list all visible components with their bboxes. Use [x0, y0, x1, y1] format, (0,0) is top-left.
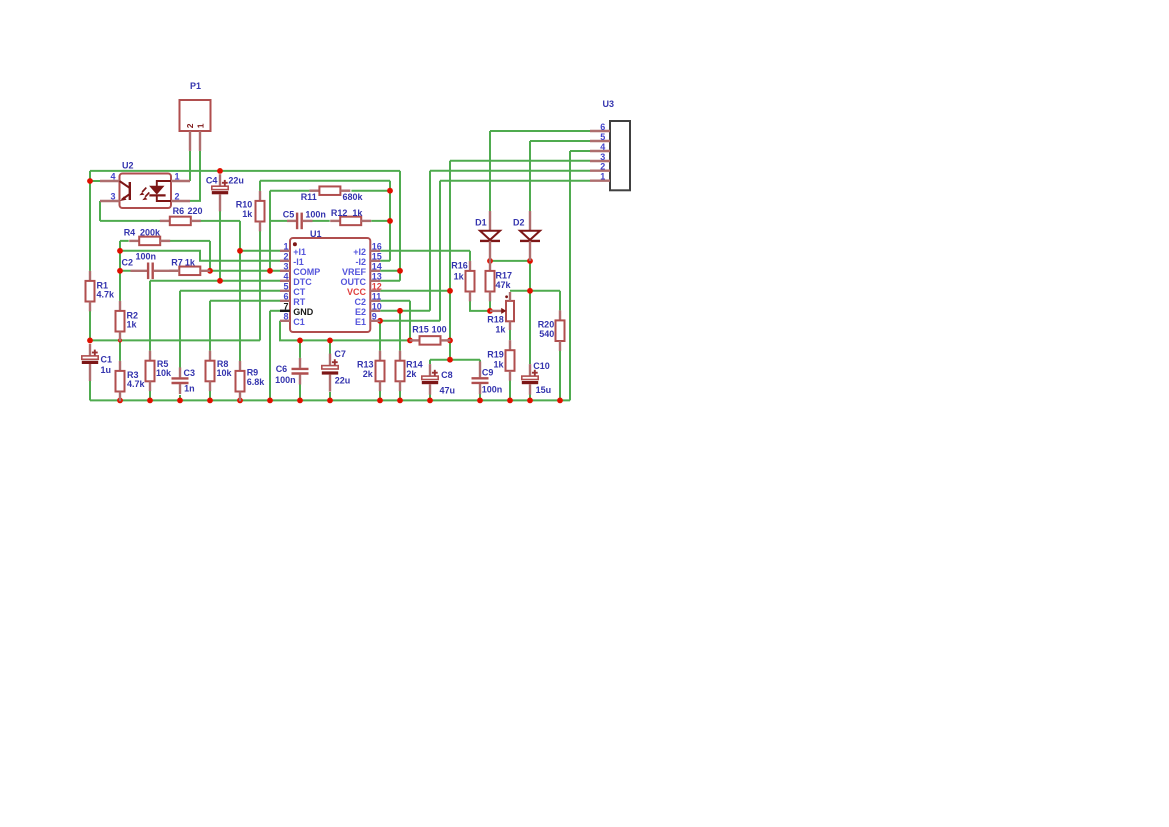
svg-text:1k: 1k: [352, 208, 363, 218]
junction (390,220.9): [387, 218, 393, 224]
resistor R7: [169, 267, 210, 276]
svg-text:1k: 1k: [185, 257, 196, 267]
potentiometer R18: [490, 292, 514, 330]
svg-text:R4: R4: [124, 227, 136, 237]
junction (530,260.9): [527, 258, 533, 264]
wire D2 from U3 pin5: [529, 141, 531, 211]
junction (410,340.4): [407, 338, 413, 344]
svg-text:1u: 1u: [101, 365, 112, 375]
svg-text:D2: D2: [513, 217, 525, 227]
wire R4 right drop: [209, 241, 211, 271]
wire U3 pin6 row: [490, 130, 590, 132]
junction (300,400.4): [297, 398, 303, 404]
wire R8 drop x210: [209, 301, 211, 351]
wire R3 bottom: [119, 391, 121, 401]
resistor R10: [256, 191, 265, 231]
label P1: [190, 81, 201, 91]
wire +I1 to pin1: [240, 250, 280, 252]
label R3 value: [127, 370, 146, 389]
svg-text:4.7k: 4.7k: [127, 379, 146, 389]
wire R19 bottom: [509, 380, 511, 400]
svg-text:R12: R12: [331, 208, 348, 218]
svg-text:4: 4: [283, 272, 288, 282]
junction (530,400.4): [527, 398, 533, 404]
junction (330,340.4): [327, 338, 333, 344]
wire divider rail: [90, 339, 260, 341]
label R19 value: [487, 350, 504, 370]
wire +I1 riser x240: [239, 221, 241, 401]
resistor R20: [556, 310, 565, 350]
svg-text:+I2: +I2: [353, 247, 366, 257]
wire RT row: [210, 300, 280, 302]
svg-text:R7: R7: [171, 257, 183, 267]
junction (220,170.9): [217, 168, 223, 174]
resistor R6: [160, 217, 201, 226]
capacitor C1: [82, 344, 98, 381]
label R7 value: [171, 257, 196, 267]
svg-text:540: 540: [539, 329, 554, 339]
svg-text:15u: 15u: [536, 385, 552, 395]
svg-text:7: 7: [283, 302, 288, 312]
wire VCC row: [380, 290, 450, 292]
wire R10 top: [259, 181, 261, 191]
svg-text:2: 2: [600, 162, 605, 172]
junction (120,250.8): [117, 248, 123, 254]
optocoupler U2: [100, 174, 190, 209]
resistor R8: [206, 351, 215, 391]
svg-text:22u: 22u: [335, 376, 351, 386]
svg-text:C9: C9: [482, 368, 494, 378]
label R18 value: [487, 315, 506, 335]
svg-text:6: 6: [283, 292, 288, 302]
wire C6 bottom: [299, 385, 301, 401]
svg-text:2k: 2k: [406, 369, 417, 379]
junction (300,340.4): [297, 338, 303, 344]
junction (180,400.4): [177, 398, 183, 404]
resistor R15: [410, 336, 451, 345]
svg-text:C2: C2: [122, 257, 134, 267]
svg-text:220: 220: [188, 206, 203, 216]
resistor R5: [146, 351, 155, 391]
resistor R3: [116, 361, 125, 401]
svg-text:12: 12: [372, 282, 382, 292]
svg-text:-I1: -I1: [293, 257, 304, 267]
wire pot top row: [510, 290, 560, 292]
svg-text:C7: C7: [334, 349, 346, 359]
label C10 value: [533, 361, 551, 395]
junction (90,181): [87, 178, 93, 184]
svg-text:10k: 10k: [217, 368, 233, 378]
svg-text:C5: C5: [283, 209, 295, 219]
resistor R9: [236, 361, 245, 401]
resistor R4: [129, 237, 170, 246]
svg-text:100n: 100n: [136, 251, 157, 261]
svg-text:47u: 47u: [440, 385, 456, 395]
wire U3 pin2 row: [430, 170, 590, 172]
resistor R19: [506, 340, 515, 380]
label U3: [603, 99, 615, 109]
resistor R1: [86, 271, 95, 311]
svg-text:VCC: VCC: [347, 287, 367, 297]
wire C4 vertical: [219, 171, 221, 281]
label R1 value: [97, 281, 116, 300]
wire C1 bottom to ground rail: [89, 378, 91, 400]
svg-text:C1: C1: [293, 317, 305, 327]
wire CT row: [180, 290, 280, 292]
svg-text:10k: 10k: [156, 368, 172, 378]
wire P1 pin2 to U2 pin1: [189, 151, 191, 181]
svg-text:1k: 1k: [242, 209, 253, 219]
U2 pin numbers: [110, 172, 179, 202]
wire -I2 riser x390: [380, 181, 390, 261]
resistor R17: [486, 261, 495, 301]
svg-text:4: 4: [600, 142, 605, 152]
label R4 value: [124, 227, 161, 237]
wire U3 pin4 drop: [569, 151, 571, 400]
label R8 value: [217, 359, 233, 378]
wire R3 top: [119, 340, 121, 361]
label R14 value: [406, 360, 423, 379]
capacitor C4: [212, 174, 228, 211]
wire D1 from U3 pin6: [489, 131, 491, 211]
label R10 value: [236, 199, 254, 218]
wire U2 pin3 drop: [99, 201, 101, 221]
svg-text:200k: 200k: [140, 227, 161, 237]
svg-text:-I2: -I2: [355, 257, 366, 267]
svg-text:R18: R18: [487, 315, 504, 325]
diode D2: [520, 211, 540, 261]
junction (450,290.8): [447, 288, 453, 294]
resistor R16: [466, 261, 475, 301]
svg-text:3: 3: [600, 152, 605, 162]
junction (90,340.4): [87, 338, 93, 344]
wire C7 top: [329, 340, 331, 355]
svg-text:OUTC: OUTC: [341, 277, 367, 287]
svg-text:1: 1: [283, 242, 288, 252]
svg-text:DTC: DTC: [293, 277, 312, 287]
svg-text:R16: R16: [451, 260, 468, 270]
svg-text:R19: R19: [487, 350, 504, 360]
wire R13 top: [379, 321, 381, 351]
svg-text:U1: U1: [310, 229, 322, 239]
svg-text:U2: U2: [122, 160, 134, 170]
connector U3: [590, 121, 630, 190]
junction (240,400.4): [237, 398, 243, 404]
svg-text:680k: 680k: [343, 192, 364, 202]
capacitor C7: [322, 354, 338, 392]
IC U1: [280, 238, 380, 332]
wire pin10 row: [380, 310, 430, 312]
svg-text:C8: C8: [441, 370, 453, 380]
wire -I1 jog: [120, 251, 280, 261]
wire C9 top: [479, 360, 481, 368]
junction (490,310.9): [487, 308, 493, 314]
wire R5 drop x150: [149, 281, 151, 351]
svg-text:VREF: VREF: [342, 267, 367, 277]
svg-text:E1: E1: [355, 317, 366, 327]
svg-text:U3: U3: [603, 99, 615, 109]
capacitor C9: [472, 362, 489, 395]
wire R8 bottom: [209, 381, 211, 401]
label C4 value: [206, 176, 244, 186]
wire COMP row: [120, 270, 280, 272]
wire E1 riser x440: [439, 181, 441, 321]
svg-text:2k: 2k: [363, 369, 374, 379]
svg-text:1k: 1k: [127, 320, 138, 330]
wire E2 riser x430: [429, 171, 431, 311]
label U1: [310, 229, 322, 239]
wire C10 drop: [529, 261, 531, 364]
label R6 value: [173, 206, 203, 216]
junction (220,280.8): [217, 278, 223, 284]
label R9 value: [247, 368, 266, 387]
junction (210,400.4): [207, 398, 213, 404]
U3 pin numbers: [600, 122, 605, 182]
wire R13 bottom: [379, 381, 381, 401]
junction (510,400.4): [507, 398, 513, 404]
svg-text:1: 1: [195, 123, 205, 128]
svg-text:6.8k: 6.8k: [247, 377, 266, 387]
svg-text:3: 3: [110, 192, 115, 202]
wire R14 bottom: [399, 381, 401, 401]
wire R17 bottom: [489, 301, 491, 311]
resistor R13: [376, 351, 385, 391]
wire R4 left drop: [119, 241, 121, 301]
U1 pin names: [293, 247, 366, 327]
wire pin9 row: [380, 320, 440, 322]
wire C3 drop x180: [179, 291, 181, 368]
junction (120,340.4): [118, 338, 122, 342]
svg-text:8: 8: [283, 312, 288, 322]
wire R2 bottom: [119, 331, 121, 341]
wire OUTC join: [380, 271, 400, 281]
svg-text:C4: C4: [206, 176, 218, 186]
junction (430,400.4): [427, 398, 433, 404]
svg-text:13: 13: [372, 272, 382, 282]
label R11 value: [301, 192, 364, 202]
wire C10 bottom: [529, 394, 531, 400]
wire C5 R12 row: [270, 220, 390, 222]
svg-text:R6: R6: [173, 206, 185, 216]
label R20 value: [538, 320, 555, 340]
svg-text:1: 1: [175, 172, 180, 182]
capacitor C5: [287, 213, 313, 230]
svg-text:22u: 22u: [228, 176, 244, 186]
label C3 value: [184, 368, 196, 394]
wire ground rail: [90, 399, 570, 401]
capacitor C3: [172, 367, 189, 394]
svg-text:5: 5: [600, 132, 605, 142]
junction (450,340.4): [447, 338, 453, 344]
wire C3 bottom: [179, 395, 181, 400]
wire pin8 down and across: [280, 321, 410, 341]
label C2 value: [122, 251, 157, 267]
junction (490,260.9): [487, 258, 493, 264]
wire C6 top: [299, 340, 301, 358]
wire R5 bottom: [149, 381, 151, 401]
wire R6 row right: [200, 220, 241, 222]
svg-text:4.7k: 4.7k: [97, 290, 116, 300]
junction (120,270.8): [117, 268, 123, 274]
wire U3 pin4 row: [570, 150, 590, 152]
svg-text:R15: R15: [412, 324, 429, 334]
wire R4 row: [120, 240, 210, 242]
junction (560,400.4): [557, 398, 563, 404]
label R15 value: [412, 324, 446, 334]
label C6 value: [275, 364, 296, 385]
label R13 value: [357, 359, 374, 378]
capacitor C6: [292, 358, 309, 385]
label C9 value: [482, 368, 503, 395]
diode D1: [480, 211, 500, 261]
label R5 value: [156, 359, 172, 378]
svg-text:2: 2: [185, 123, 195, 128]
svg-text:R11: R11: [301, 192, 317, 202]
label D2: [513, 217, 525, 227]
svg-text:14: 14: [372, 262, 382, 272]
wire COMP riser x270: [269, 191, 271, 271]
label D1: [475, 217, 487, 227]
svg-text:11: 11: [372, 292, 382, 302]
label R12 value: [331, 208, 364, 218]
svg-text:C1: C1: [101, 354, 113, 364]
svg-text:CT: CT: [293, 287, 305, 297]
svg-text:E2: E2: [355, 307, 366, 317]
svg-text:R20: R20: [538, 320, 555, 330]
svg-text:P1: P1: [190, 81, 201, 91]
junction (390,190.7): [387, 188, 393, 194]
wire C8 bottom: [429, 394, 431, 400]
svg-text:9: 9: [372, 312, 377, 322]
svg-text:C2: C2: [354, 297, 366, 307]
junction (380,400.4): [377, 398, 383, 404]
svg-text:100n: 100n: [482, 385, 503, 395]
resistor R2: [116, 301, 125, 341]
label R17 value: [496, 271, 513, 290]
junction (480,400.4): [477, 398, 483, 404]
wire pin11 to R15: [380, 301, 410, 341]
svg-text:1k: 1k: [494, 360, 505, 370]
wire VREF left drop: [89, 171, 91, 271]
junction (400,310.8): [397, 308, 403, 314]
resistor R14: [396, 351, 405, 391]
svg-text:RT: RT: [293, 297, 305, 307]
junction (380,320.8): [377, 318, 383, 324]
junction (240,250.8): [237, 248, 243, 254]
svg-text:10: 10: [372, 302, 382, 312]
label U2: [122, 160, 134, 170]
label C8 value: [440, 370, 456, 395]
svg-text:C6: C6: [276, 364, 288, 374]
wire R11 row: [270, 190, 390, 192]
wire U3 pin3 row: [450, 160, 590, 162]
label R2 value: [127, 310, 139, 329]
label C1 value: [101, 354, 113, 375]
wire R14 top: [399, 311, 401, 351]
wire D1 D2 cathodes: [490, 260, 530, 262]
wire pin16 row: [380, 250, 470, 252]
wire U3 pin5 row: [530, 140, 590, 142]
wire feedback bus: [260, 180, 390, 182]
svg-text:GND: GND: [293, 307, 314, 317]
svg-text:6: 6: [600, 122, 605, 132]
junction (270,270.8): [267, 268, 273, 274]
wire C9 bottom: [479, 394, 481, 400]
svg-text:47k: 47k: [496, 280, 512, 290]
wire U2 pin4 to node: [90, 180, 100, 182]
resistor R12: [330, 217, 371, 226]
svg-text:3: 3: [283, 262, 288, 272]
svg-text:5: 5: [283, 282, 288, 292]
capacitor C8: [422, 364, 438, 395]
wire VCC riser x450: [449, 161, 451, 360]
junction (400,400.4): [397, 398, 403, 404]
junction (270,400.4): [267, 398, 273, 404]
resistor R11: [309, 186, 350, 195]
wire P1 pin1 to U2 pin2: [190, 151, 200, 201]
junction (530,290.8): [527, 288, 533, 294]
svg-text:COMP: COMP: [293, 267, 320, 277]
svg-text:16: 16: [372, 242, 382, 252]
junction (210,270.8): [207, 268, 213, 274]
svg-text:15: 15: [372, 252, 382, 262]
svg-text:2: 2: [283, 252, 288, 262]
svg-text:1n: 1n: [184, 384, 195, 394]
junction (150,400.4): [147, 398, 153, 404]
wire R18 bottom to R19: [509, 329, 511, 340]
junction (450,359.7): [447, 357, 453, 363]
wire R20 bottom: [559, 350, 561, 400]
wire VREF riser x400: [380, 171, 400, 271]
wire R10 bottom to divider rail: [259, 231, 261, 341]
U1 pin numbers: [283, 242, 381, 322]
capacitor C2: [131, 263, 180, 280]
svg-text:1: 1: [600, 172, 605, 182]
wire C8 C9 row: [430, 359, 480, 361]
wire DTC row: [150, 280, 280, 282]
svg-text:2: 2: [175, 192, 180, 202]
wire GND row: [270, 310, 280, 312]
svg-text:+I1: +I1: [293, 247, 306, 257]
wire C7 bottom: [329, 392, 331, 400]
wire U3 pin1 row: [440, 180, 590, 182]
junction (330,400.4): [327, 398, 333, 404]
svg-text:1k: 1k: [495, 324, 506, 334]
wire R1 bottom to node: [89, 311, 91, 341]
svg-text:100n: 100n: [275, 375, 296, 385]
svg-text:1k: 1k: [454, 272, 465, 282]
connector P1: [180, 100, 211, 151]
wire R20 top: [559, 291, 561, 311]
svg-text:C10: C10: [533, 361, 550, 371]
label R16 value: [451, 260, 468, 281]
svg-text:100n: 100n: [305, 209, 326, 219]
svg-text:100: 100: [432, 324, 447, 334]
label C7 value: [334, 349, 350, 385]
wire GND drop x270: [269, 311, 271, 401]
wire C8 top: [429, 360, 431, 364]
wire VREF top bus: [90, 170, 400, 172]
wire R16 bottom to wiper: [470, 301, 490, 311]
wire R6 row left: [100, 220, 160, 222]
junction (120,400.4): [117, 398, 123, 404]
capacitor C10: [522, 364, 538, 395]
junction (400,270.8): [397, 268, 403, 274]
P1 pin numbers: [185, 123, 205, 128]
svg-text:D1: D1: [475, 217, 487, 227]
svg-text:C3: C3: [184, 368, 196, 378]
wire R16 top drop: [469, 251, 471, 261]
